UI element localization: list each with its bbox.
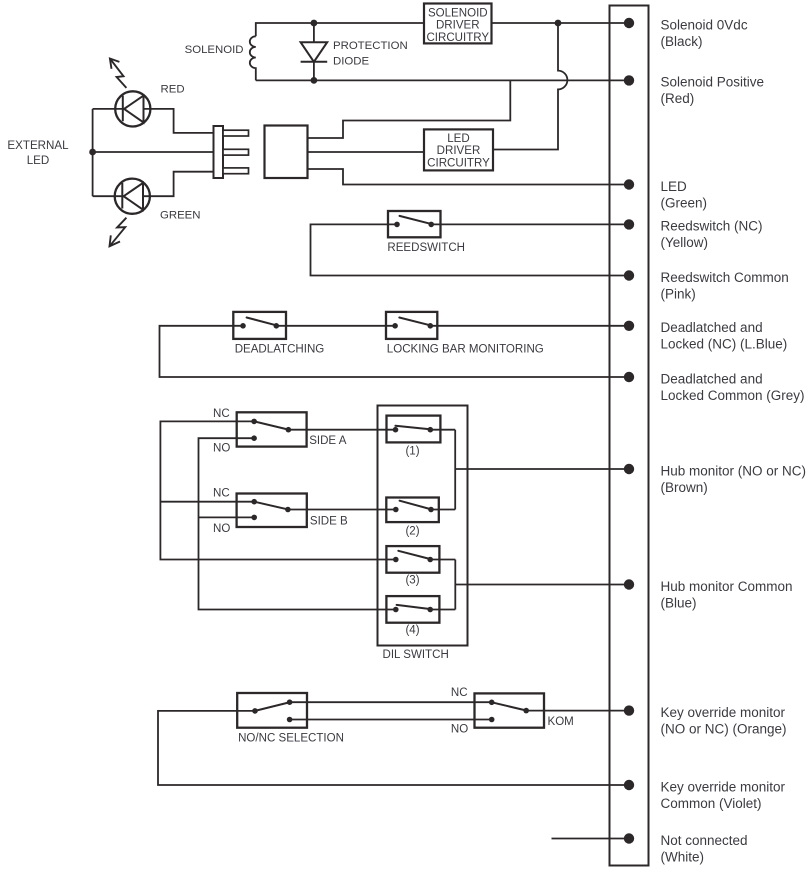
svg-text:LED: LED [447, 133, 469, 145]
terminal deadlatched common [624, 372, 634, 382]
wire green LED left [93, 195, 123, 197]
svg-text:(3): (3) [405, 575, 419, 587]
svg-text:NO: NO [451, 723, 468, 735]
wire DIL 3 right [430, 559, 455, 561]
svg-text:GREEN: GREEN [160, 210, 201, 222]
svg-text:REEDSWITCH: REEDSWITCH [387, 242, 465, 254]
switch S6 DIL 1 [387, 416, 441, 443]
junction LED common [89, 149, 96, 156]
wire LED driver to 0Vdc rail with hop over positive rail [493, 23, 567, 150]
svg-text:(White): (White) [661, 849, 705, 864]
arrow green emission [110, 218, 127, 247]
wire locking bar to NC terminal [430, 325, 629, 327]
switch S3 locking bar monitoring [386, 312, 437, 339]
wire DIL 2 right [431, 509, 455, 511]
svg-text:(2): (2) [405, 526, 419, 538]
connector J1 pin header bar [214, 126, 224, 178]
svg-text:Hub monitor Common: Hub monitor Common [661, 579, 793, 594]
svg-text:NC: NC [451, 687, 468, 699]
wire green LED to connector pin3 [143, 172, 214, 197]
svg-text:Locked (NC) (L.Blue): Locked (NC) (L.Blue) [661, 337, 788, 352]
svg-text:DIL SWITCH: DIL SWITCH [383, 649, 449, 661]
svg-text:Hub monitor (NO or NC): Hub monitor (NO or NC) [661, 463, 807, 478]
svg-text:(1): (1) [405, 446, 419, 458]
svg-text:NO: NO [213, 443, 230, 455]
svg-text:(Black): (Black) [661, 34, 703, 49]
svg-text:LOCKING BAR MONITORING: LOCKING BAR MONITORING [387, 344, 544, 356]
solenoid L1 coil [250, 36, 256, 80]
connector J1 pin 3 [223, 168, 249, 174]
svg-text:(Yellow): (Yellow) [661, 235, 709, 250]
svg-text:Reedswitch Common: Reedswitch Common [661, 270, 789, 285]
terminal solenoid 0Vdc [624, 18, 634, 28]
switch S2 deadlatching [233, 312, 286, 339]
svg-text:LED: LED [661, 179, 688, 194]
switch S4 side A [237, 412, 307, 446]
switch S5 side B [237, 494, 307, 528]
svg-text:DEADLATCHING: DEADLATCHING [235, 344, 325, 356]
arrow red emission [110, 59, 127, 88]
wire connector bottom to LED terminal [308, 169, 630, 185]
svg-text:CIRCUITRY: CIRCUITRY [427, 157, 490, 169]
wire not connected stub [552, 838, 630, 840]
svg-text:PROTECTION: PROTECTION [333, 40, 408, 52]
wire DIL 3-4 tie [454, 560, 456, 610]
wire DIL 1 right [430, 429, 455, 431]
junction at 0Vdc rail [555, 20, 562, 27]
terminal not connected [624, 833, 634, 843]
wire reedswitch to NC terminal [431, 223, 629, 225]
wire reedswitch to common terminal [311, 224, 630, 275]
switch S10 NO/NC selection [237, 693, 307, 728]
terminal LED [624, 179, 634, 189]
svg-text:EXTERNAL: EXTERNAL [7, 139, 69, 152]
LED DS1 red [115, 91, 150, 126]
wire side B NC tee [160, 501, 254, 503]
junction diode bottom [311, 77, 318, 84]
box U1 solenoid driver circuitry [424, 4, 492, 44]
terminal deadlatched NC [624, 321, 634, 331]
wire connector mid to LED driver [308, 151, 425, 153]
svg-text:KOM: KOM [548, 716, 574, 728]
wire solenoid 0Vdc top rail left segment [256, 23, 424, 36]
terminal solenoid positive [624, 75, 634, 85]
svg-text:DRIVER: DRIVER [437, 145, 481, 157]
wire deadlatching to locking bar [276, 325, 395, 327]
svg-text:Not connected: Not connected [661, 833, 748, 848]
LED DS2 green [115, 179, 150, 214]
connector J2 socket block [265, 126, 308, 179]
svg-text:(Red): (Red) [661, 91, 695, 106]
wire side B NO tee [199, 516, 255, 518]
svg-text:(4): (4) [405, 625, 419, 637]
wire DIL 1-2 tie [454, 430, 456, 510]
svg-text:Solenoid 0Vdc: Solenoid 0Vdc [661, 17, 748, 32]
svg-text:(Pink): (Pink) [661, 286, 696, 301]
svg-text:NC: NC [213, 488, 230, 500]
svg-text:SOLENOID: SOLENOID [185, 44, 244, 56]
wire side A NC to DIL 3 [160, 421, 395, 559]
wire diode anode stub [313, 23, 315, 42]
svg-text:Reedswitch (NC): Reedswitch (NC) [661, 219, 763, 234]
bus bar connector strip [610, 6, 649, 866]
svg-text:Locked Common (Grey): Locked Common (Grey) [661, 388, 805, 403]
wire hub monitor to terminal [455, 468, 629, 470]
svg-text:(Brown): (Brown) [661, 480, 708, 495]
wire LED common vertical [92, 109, 94, 196]
wire solenoid positive bottom rail [256, 79, 629, 81]
diode D1 protection diode [301, 42, 328, 62]
wire NO/NC selection NC to KOM [290, 701, 492, 703]
connector J1 pin 1 [223, 130, 249, 136]
svg-text:SOLENOID: SOLENOID [428, 7, 488, 19]
wire deadlatching left loop to common terminal [160, 326, 630, 377]
wire side A common to DIL 1 [288, 429, 395, 431]
terminal reedswitch NC [624, 219, 634, 229]
terminal reedswitch common [624, 270, 634, 280]
svg-text:DRIVER: DRIVER [436, 20, 480, 32]
switch S9 DIL 4 [386, 596, 439, 623]
junction diode top [311, 20, 318, 27]
switch S7 DIL 2 [386, 498, 439, 523]
wire red LED to connector pin1 [144, 109, 214, 133]
box U2 LED driver circuitry [424, 129, 493, 170]
svg-text:Solenoid Positive: Solenoid Positive [661, 74, 765, 89]
switch S11 key override KOM [475, 693, 545, 727]
terminal hub monitor common [624, 579, 634, 589]
svg-text:(NO or NC) (Orange): (NO or NC) (Orange) [661, 721, 787, 736]
wire KOM to terminal [526, 710, 629, 712]
svg-text:Deadlatched and: Deadlatched and [661, 371, 763, 386]
wire red LED left [93, 108, 123, 110]
wire hub monitor common to terminal [455, 584, 629, 586]
svg-text:SIDE A: SIDE A [309, 435, 347, 447]
switch S1 reedswitch box [388, 211, 441, 237]
wire connector top to solenoid positive rail [308, 80, 511, 138]
svg-text:(Green): (Green) [661, 195, 708, 210]
svg-text:Key override monitor: Key override monitor [661, 705, 786, 720]
svg-text:NO/NC SELECTION: NO/NC SELECTION [238, 733, 344, 745]
wire side B common to DIL 2 [288, 509, 396, 511]
svg-text:NO: NO [213, 523, 230, 535]
connector J1 pin 2 [223, 149, 249, 155]
wire solenoid 0Vdc top rail right segment [492, 22, 630, 24]
terminal key override monitor [624, 705, 634, 715]
wire DIL 4 right [430, 609, 455, 611]
wire LED common to connector [93, 151, 214, 153]
svg-text:RED: RED [161, 84, 185, 96]
wire side A NO to DIL 4 [199, 438, 396, 609]
wire diode cathode stub [313, 62, 315, 81]
terminal key override common [624, 780, 634, 790]
diode D1 cathode bar [301, 61, 328, 63]
svg-text:SIDE B: SIDE B [310, 515, 348, 527]
svg-text:Key override monitor: Key override monitor [661, 779, 786, 794]
wire NO/NC selection NO to KOM [290, 719, 492, 721]
svg-text:(Blue): (Blue) [661, 595, 697, 610]
box DIL switch outline [378, 406, 468, 646]
svg-text:CIRCUITRY: CIRCUITRY [426, 32, 489, 44]
svg-text:Deadlatched and: Deadlatched and [661, 320, 763, 335]
svg-text:DIODE: DIODE [333, 55, 369, 67]
terminal hub monitor [624, 464, 634, 474]
svg-text:LED: LED [27, 154, 50, 167]
switch S8 DIL 3 [386, 546, 439, 573]
svg-text:NC: NC [213, 408, 230, 420]
svg-text:Common (Violet): Common (Violet) [661, 796, 762, 811]
wire NO/NC selection common loop to terminal [158, 711, 629, 785]
